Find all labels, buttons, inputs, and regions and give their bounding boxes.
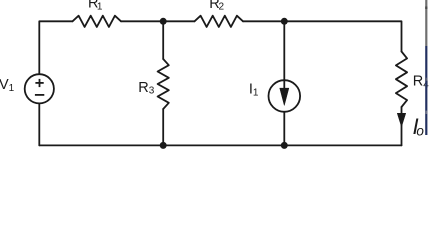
wire I1 branch top <box>283 21 285 80</box>
voltage source V1 <box>25 74 54 103</box>
resistor R4 <box>396 52 407 108</box>
node dot bottom under I1 <box>281 142 288 149</box>
right edge band navy <box>425 46 427 135</box>
V1 plus sign <box>35 79 43 87</box>
I1 arrow <box>280 81 289 106</box>
wire top-right segment <box>243 21 402 51</box>
wire between R1 and R2 <box>121 20 195 22</box>
wire R3 branch top <box>162 21 164 59</box>
right edge band gray top <box>425 0 427 46</box>
wire bottom rail <box>39 144 401 146</box>
node dot top between R1 and R2 <box>160 18 167 25</box>
wire top-left segment <box>39 21 72 74</box>
current source I1 <box>269 80 301 112</box>
svg-text:R1: R1 <box>88 0 103 12</box>
node dot bottom under R3 <box>160 142 167 149</box>
svg-text:R2: R2 <box>209 0 224 13</box>
wire R3 bottom <box>162 109 164 145</box>
Io arrow on R4 branch <box>397 113 405 126</box>
wire I1 bottom <box>283 112 285 146</box>
resistor R3 <box>158 59 169 109</box>
resistor R2 <box>195 16 244 27</box>
resistor R1 <box>73 16 122 27</box>
wire V1 bottom to ground rail <box>38 103 40 145</box>
node dot top right of R2 <box>281 18 288 25</box>
V1 minus sign <box>35 94 44 96</box>
wire R4 bottom with output branch <box>401 107 403 145</box>
